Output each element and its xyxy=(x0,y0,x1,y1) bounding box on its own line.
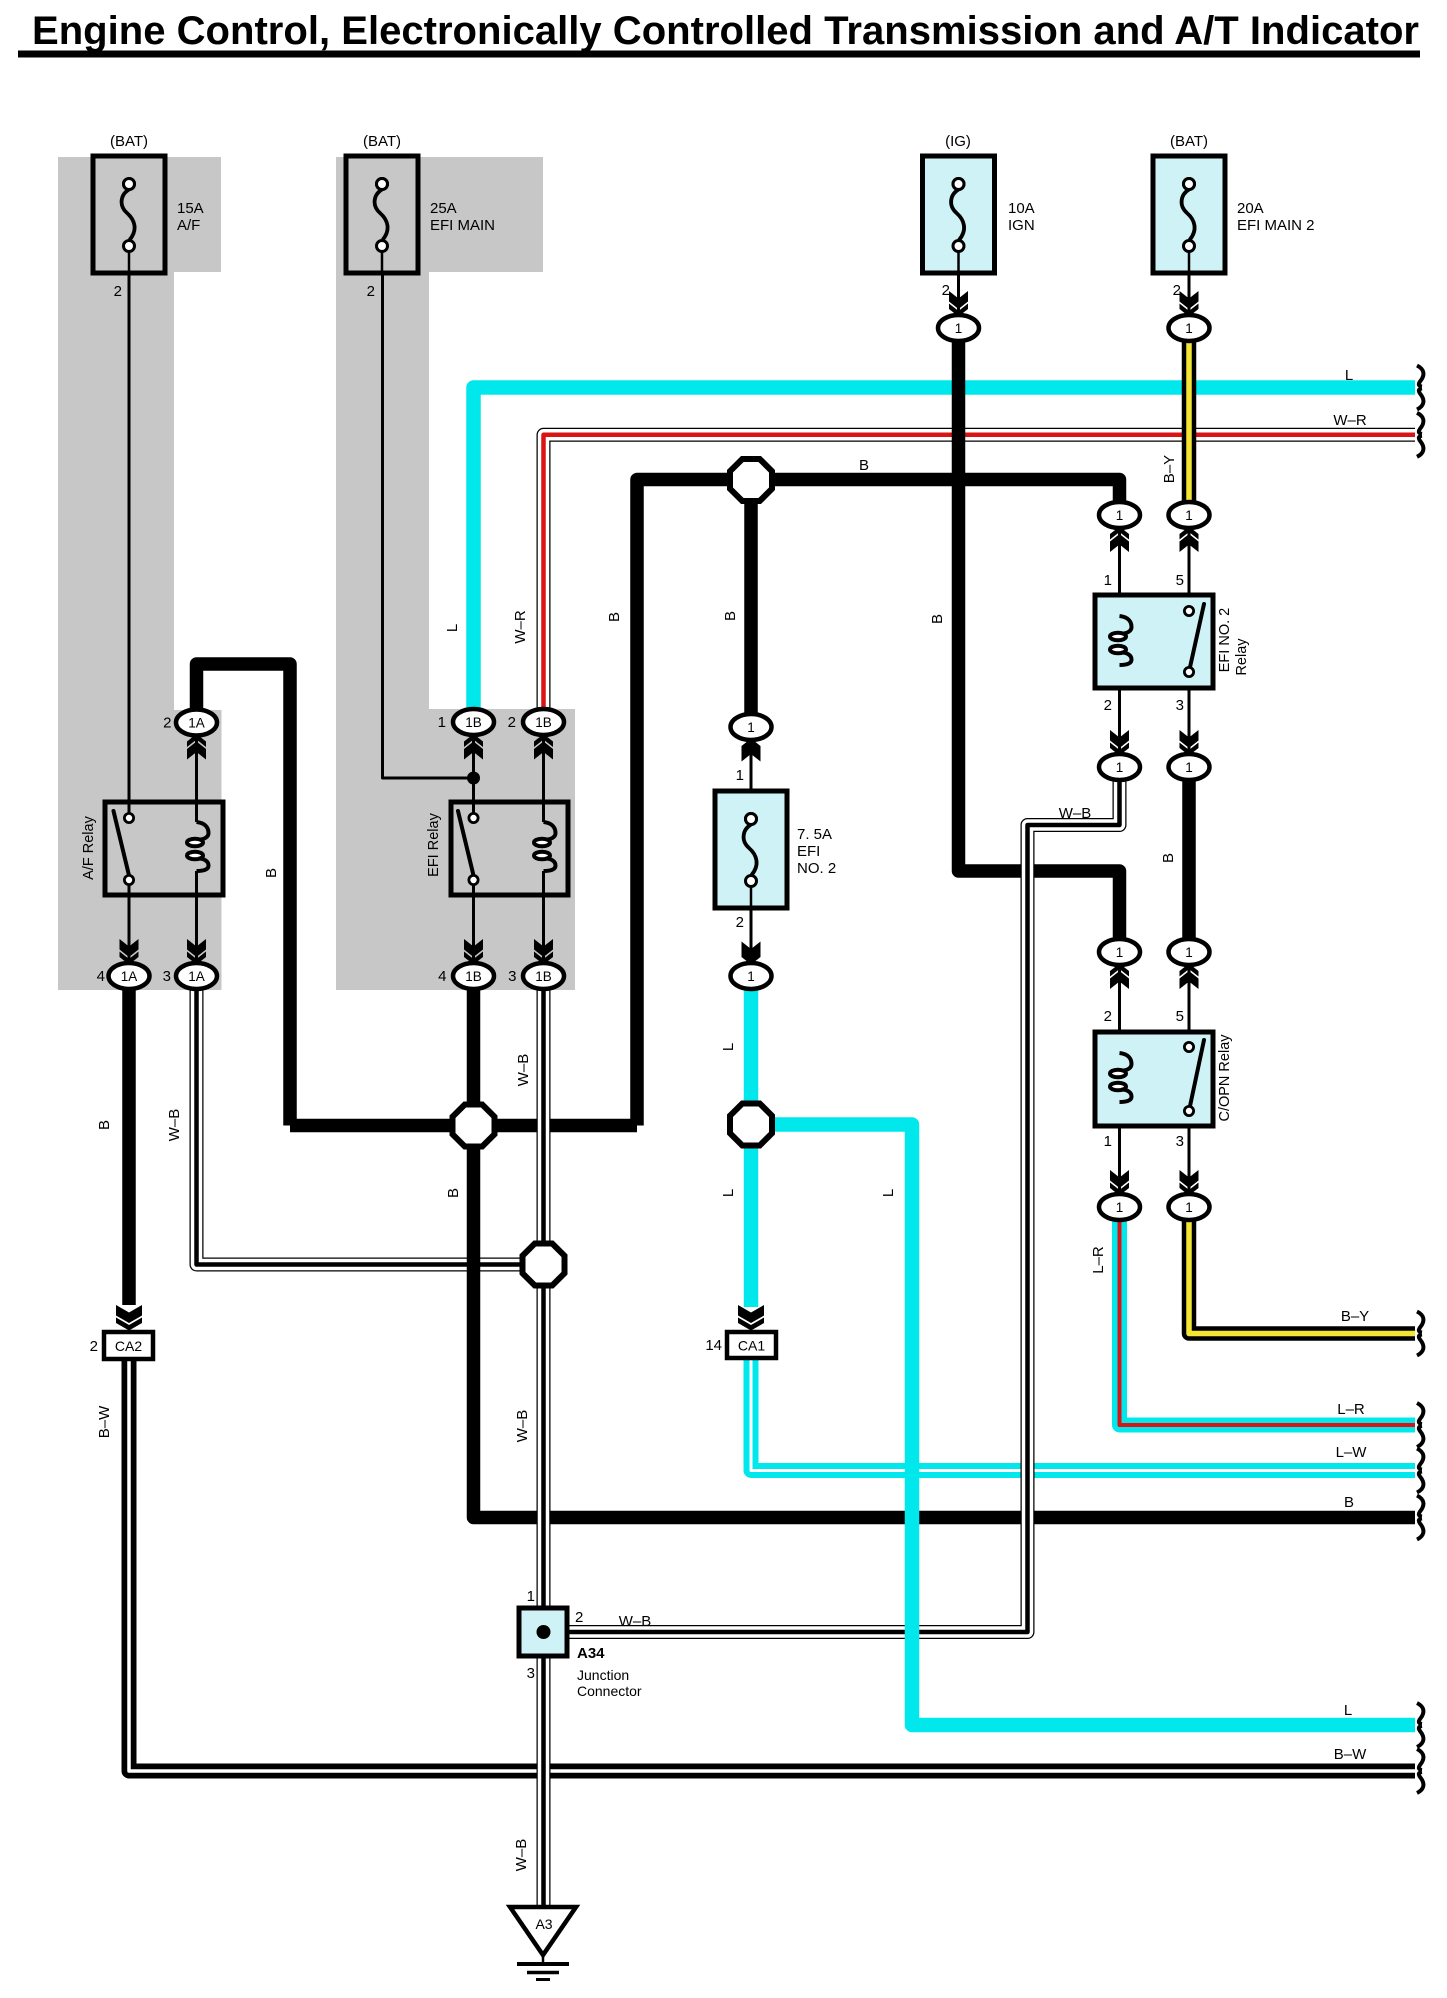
svg-text:15A: 15A xyxy=(177,200,204,217)
connector 1B pin 4 xyxy=(438,939,494,989)
svg-text:B: B xyxy=(1160,853,1177,863)
svg-text:1A: 1A xyxy=(188,715,205,730)
off-page brace B-W xyxy=(1417,1749,1423,1793)
svg-text:W–B: W–B xyxy=(514,1410,531,1443)
svg-text:1: 1 xyxy=(438,714,446,731)
svg-text:Junction: Junction xyxy=(577,1667,629,1683)
junction dot EFI relay feed xyxy=(467,772,480,785)
wire L from 7.5A fuse through octagon to connector CA1 xyxy=(744,990,759,1307)
svg-text:3: 3 xyxy=(1176,1133,1184,1150)
wire EFI NO.2 relay pin 2 stub xyxy=(1118,665,1121,755)
svg-text:1: 1 xyxy=(1116,508,1124,523)
wire 10A IGN fuse to connector xyxy=(957,273,960,316)
relay block shading (A/F relay / 15A fuse column) xyxy=(58,157,222,990)
connector 1 below C/OPN relay pin 3 xyxy=(1169,1133,1210,1220)
svg-text:(BAT): (BAT) xyxy=(363,133,401,150)
svg-text:W–B: W–B xyxy=(619,1613,652,1630)
svg-text:C/OPN Relay: C/OPN Relay xyxy=(1217,1034,1233,1122)
svg-text:B–W: B–W xyxy=(1334,1746,1367,1763)
wire B from EFI NO.2 relay pin 3 to C/OPN relay pin 5 xyxy=(1182,767,1196,952)
wire W-B from A/F relay 1A pin 3 to splice octagon xyxy=(197,989,544,1265)
wire B-Y from 20A EFI MAIN 2 fuse to EFI NO.2 relay pin 5 xyxy=(1182,341,1197,515)
wire 7.5A fuse top stub xyxy=(750,740,753,815)
wire W-R from right edge to EFI relay 1B pin 2 xyxy=(544,435,1416,710)
svg-text:L: L xyxy=(880,1189,897,1197)
svg-text:1: 1 xyxy=(955,321,963,336)
svg-text:2: 2 xyxy=(575,1609,583,1626)
svg-text:EFI MAIN: EFI MAIN xyxy=(430,217,495,234)
splice octagon (B distribution, lower) xyxy=(453,1105,495,1147)
wire B from EFI relay 1B pin 4 down to splice octagon xyxy=(467,989,481,1126)
svg-text:CA2: CA2 xyxy=(115,1338,142,1354)
svg-text:1A: 1A xyxy=(188,969,205,984)
relay EFI Relay xyxy=(426,802,568,895)
svg-text:1: 1 xyxy=(527,1588,535,1605)
wire EFI NO.2 relay pin 1 stub xyxy=(1118,528,1121,616)
svg-text:4: 4 xyxy=(97,968,105,985)
svg-text:A/F: A/F xyxy=(177,217,200,234)
connector 1 below EFI NO.2 relay pin 2 xyxy=(1099,697,1140,780)
svg-text:L: L xyxy=(444,624,461,632)
connector 1 at EFI NO.2 relay pin 1 xyxy=(1099,502,1140,589)
fuse 25A EFI MAIN xyxy=(346,133,495,300)
svg-text:Engine Control, Electronically: Engine Control, Electronically Controlle… xyxy=(32,9,1419,53)
svg-text:L–R: L–R xyxy=(1090,1246,1107,1274)
svg-text:1: 1 xyxy=(1104,1133,1112,1150)
wire L (cyan) from junction 1B to right edge xyxy=(474,388,1416,711)
wire EFI NO.2 relay pin 5 stub xyxy=(1188,528,1191,608)
svg-text:L–W: L–W xyxy=(1336,1444,1368,1461)
wire EFI relay switch to 1B pin 4 xyxy=(472,885,475,963)
svg-text:B: B xyxy=(1344,1494,1354,1511)
off-page brace B-Y xyxy=(1417,1312,1423,1356)
svg-text:3: 3 xyxy=(527,1665,535,1682)
relay A/F Relay xyxy=(81,802,223,895)
svg-text:1: 1 xyxy=(747,969,755,984)
wire B from splice octagon to right edge xyxy=(474,1126,1416,1518)
svg-text:Connector: Connector xyxy=(577,1683,642,1699)
ground A3 xyxy=(510,1907,576,1980)
svg-text:B: B xyxy=(606,612,623,622)
svg-text:B–Y: B–Y xyxy=(1341,1308,1369,1325)
fuse 15A A/F xyxy=(93,133,204,300)
svg-text:1A: 1A xyxy=(121,969,138,984)
svg-text:B: B xyxy=(96,1120,113,1130)
fuse 7.5A EFI NO.2 xyxy=(715,767,836,931)
svg-text:1: 1 xyxy=(1185,1200,1193,1215)
svg-text:W–B: W–B xyxy=(515,1054,532,1087)
svg-text:B–Y: B–Y xyxy=(1161,455,1178,483)
off-page brace L xyxy=(1417,366,1423,410)
svg-text:EFI NO. 2: EFI NO. 2 xyxy=(1217,608,1233,672)
svg-text:14: 14 xyxy=(705,1337,722,1354)
svg-text:IGN: IGN xyxy=(1008,217,1035,234)
svg-text:CA1: CA1 xyxy=(738,1338,765,1354)
svg-text:1: 1 xyxy=(747,720,755,735)
svg-text:1: 1 xyxy=(1185,508,1193,523)
svg-text:5: 5 xyxy=(1176,572,1184,589)
svg-text:2: 2 xyxy=(736,914,744,931)
svg-text:Relay: Relay xyxy=(1234,638,1250,676)
svg-text:W–R: W–R xyxy=(1333,412,1367,429)
relay C/OPN Relay xyxy=(1095,1032,1233,1126)
svg-text:1: 1 xyxy=(736,767,744,784)
connector CA2 pin 2 xyxy=(90,1305,153,1359)
svg-text:2: 2 xyxy=(90,1338,98,1355)
svg-text:2: 2 xyxy=(1104,1008,1112,1025)
off-page brace B xyxy=(1417,1496,1423,1540)
wire EFI relay coil to 1B pin 3 xyxy=(542,871,545,963)
svg-text:W–B: W–B xyxy=(166,1109,183,1142)
wire L branch from octagon to right edge xyxy=(751,1125,1415,1726)
svg-text:2: 2 xyxy=(114,283,122,300)
svg-text:1B: 1B xyxy=(535,969,552,984)
wire L-W from connector CA1 to right edge xyxy=(751,1357,1415,1471)
connector 1 at EFI NO.2 relay pin 5 xyxy=(1169,502,1210,589)
wire from 15A A/F fuse to A/F relay switch xyxy=(128,273,131,815)
svg-text:4: 4 xyxy=(438,968,446,985)
splice octagon (W-B distribution) xyxy=(523,1244,565,1286)
wire A/F relay coil to 1A pin 3 xyxy=(195,871,198,963)
relay block shading (EFI relay / 25A fuse column) xyxy=(336,157,575,990)
wire EFI relay coil stub top xyxy=(542,735,545,822)
wire W-B from EFI NO.2 relay pin 2 to junction connector A34 xyxy=(565,780,1120,1632)
svg-text:B: B xyxy=(859,457,869,474)
svg-text:7. 5A: 7. 5A xyxy=(797,826,832,843)
wire from EFI relay 1B pin 1 to switch xyxy=(472,735,475,815)
connector 1A pin 4 xyxy=(97,939,150,989)
svg-text:2: 2 xyxy=(367,283,375,300)
wire B branch from octagon to 7.5A EFI NO.2 fuse xyxy=(744,480,758,728)
svg-text:NO. 2: NO. 2 xyxy=(797,860,836,877)
svg-text:3: 3 xyxy=(508,968,516,985)
relay EFI NO.2 Relay xyxy=(1095,595,1250,688)
svg-text:W–B: W–B xyxy=(1059,805,1092,822)
wire L-R from C/OPN relay pin 1 to right edge xyxy=(1120,1220,1416,1425)
wire 20A EFI MAIN 2 fuse to connector xyxy=(1188,273,1191,316)
wire from 25A EFI MAIN fuse to EFI relay junction xyxy=(383,273,474,778)
wire A/F relay switch to 1A pin 4 xyxy=(128,885,131,963)
svg-text:EFI: EFI xyxy=(797,843,820,860)
svg-text:W–R: W–R xyxy=(512,610,529,644)
svg-text:1B: 1B xyxy=(535,715,552,730)
svg-text:EFI MAIN 2: EFI MAIN 2 xyxy=(1237,217,1315,234)
connector 1 below 7.5A fuse xyxy=(731,942,772,990)
wire C/OPN relay pin 5 stub xyxy=(1188,964,1191,1044)
connector 1A pin 3 xyxy=(163,939,217,989)
off-page brace W-R xyxy=(1417,413,1423,457)
svg-text:1: 1 xyxy=(1185,945,1193,960)
connector 1 below C/OPN relay pin 1 xyxy=(1099,1133,1140,1220)
svg-text:L–R: L–R xyxy=(1337,1401,1365,1418)
svg-text:(IG): (IG) xyxy=(945,133,971,150)
wire B-Y from C/OPN relay pin 3 to right edge xyxy=(1189,1220,1415,1334)
wire B from A/F relay 1A pin 2 up and over to EFI relay branch xyxy=(197,664,291,1126)
svg-text:5: 5 xyxy=(1176,1008,1184,1025)
wire W-B from A34 to ground A3 xyxy=(537,1655,551,1907)
svg-text:1: 1 xyxy=(1104,572,1112,589)
svg-text:W–B: W–B xyxy=(513,1839,530,1872)
svg-text:2: 2 xyxy=(942,282,950,299)
svg-text:2: 2 xyxy=(1104,697,1112,714)
wire C/OPN relay pin 2 stub xyxy=(1118,964,1121,1053)
svg-text:L: L xyxy=(1344,1702,1352,1719)
svg-text:1: 1 xyxy=(1185,321,1193,336)
svg-text:B: B xyxy=(263,868,280,878)
svg-text:2: 2 xyxy=(163,715,171,732)
svg-text:2: 2 xyxy=(508,714,516,731)
svg-text:25A: 25A xyxy=(430,200,457,217)
fuse 10A IGN xyxy=(923,133,1035,299)
connector 1B pin 1 xyxy=(438,709,494,760)
svg-text:(BAT): (BAT) xyxy=(110,133,148,150)
svg-text:B: B xyxy=(929,614,946,624)
svg-text:1: 1 xyxy=(1116,760,1124,775)
wire A/F relay coil stub top xyxy=(195,736,198,822)
svg-text:A34: A34 xyxy=(577,1645,605,1662)
connector 1 below 20A EFI MAIN 2 fuse xyxy=(1169,291,1210,341)
connector 1 above 7.5A fuse xyxy=(731,714,772,762)
svg-text:L: L xyxy=(720,1189,737,1197)
junction connector A34 xyxy=(519,1588,642,1699)
wire B riser to top distribution line xyxy=(637,480,1120,1126)
wire C/OPN relay pin 3 stub xyxy=(1188,1113,1191,1195)
connector 1B pin 3 xyxy=(508,939,564,989)
svg-text:(BAT): (BAT) xyxy=(1170,133,1208,150)
svg-text:1B: 1B xyxy=(465,969,482,984)
fuse 20A EFI MAIN 2 xyxy=(1153,133,1315,299)
wire 7.5A fuse bottom stub xyxy=(750,907,753,963)
svg-text:A/F Relay: A/F Relay xyxy=(81,815,97,879)
wire EFI NO.2 relay pin 3 stub xyxy=(1188,677,1191,755)
connector 1 above C/OPN relay pin 2 xyxy=(1099,939,1140,1025)
wire W-B from EFI relay 1B pin 3 through octagon to A34 xyxy=(537,989,551,1609)
svg-text:3: 3 xyxy=(1176,697,1184,714)
connector 1 below EFI NO.2 relay pin 3 xyxy=(1169,697,1210,780)
svg-text:1: 1 xyxy=(1185,760,1193,775)
svg-text:1: 1 xyxy=(1116,945,1124,960)
svg-text:1B: 1B xyxy=(465,715,482,730)
svg-text:10A: 10A xyxy=(1008,200,1035,217)
svg-text:B: B xyxy=(445,1188,462,1198)
wire B from 10A IGN fuse to C/OPN relay pin 2 xyxy=(959,341,1120,952)
wire B-W from connector CA2 to right edge xyxy=(129,1359,1415,1771)
svg-text:L: L xyxy=(1345,367,1353,384)
off-page brace L-W xyxy=(1417,1449,1423,1493)
svg-text:L: L xyxy=(720,1043,737,1051)
connector CA1 pin 14 xyxy=(705,1305,776,1358)
wire B horizontal through splice octagon xyxy=(290,1119,637,1133)
svg-text:20A: 20A xyxy=(1237,200,1264,217)
svg-text:B–W: B–W xyxy=(96,1405,113,1438)
wire A34 pin 2 internal xyxy=(544,1631,568,1634)
connector 1 below 10A IGN fuse xyxy=(938,291,979,341)
svg-text:B: B xyxy=(722,611,739,621)
connector 1 above C/OPN relay pin 5 xyxy=(1169,939,1210,1025)
off-page brace L xyxy=(1417,1703,1423,1747)
wire B from A/F relay 1A pin 4 to connector CA2 xyxy=(122,989,136,1305)
splice octagon (L distribution) xyxy=(730,1104,772,1146)
svg-text:1: 1 xyxy=(1116,1200,1124,1215)
connector 1A pin 2 (A/F relay coil feed) xyxy=(163,710,217,760)
wire C/OPN relay pin 1 stub xyxy=(1118,1102,1121,1195)
off-page brace L-R xyxy=(1417,1403,1423,1447)
svg-text:A3: A3 xyxy=(535,1916,552,1932)
svg-text:EFI Relay: EFI Relay xyxy=(426,812,442,876)
svg-text:3: 3 xyxy=(163,968,171,985)
splice octagon (B distribution, top) xyxy=(730,459,772,501)
connector 1B pin 2 xyxy=(508,709,564,760)
title: Engine Control, Electronically Controlled Transmission and A/T Indicator xyxy=(18,9,1420,58)
